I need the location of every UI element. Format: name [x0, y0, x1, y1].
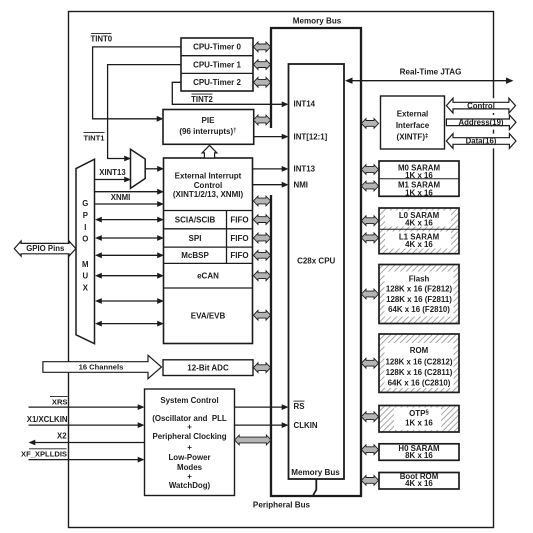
- svg-text:SCIA/SCIB: SCIA/SCIB: [175, 215, 216, 224]
- svg-text:eCAN: eCAN: [197, 272, 219, 281]
- svg-text:McBSP: McBSP: [181, 251, 209, 260]
- svg-text:TINT2: TINT2: [191, 95, 213, 104]
- svg-text:FIFO: FIFO: [230, 234, 248, 243]
- svg-text:INT13: INT13: [294, 165, 316, 174]
- svg-text:EVA/EVB: EVA/EVB: [191, 311, 226, 320]
- svg-text:Peripheral Clocking: Peripheral Clocking: [152, 432, 226, 441]
- svg-text:O: O: [82, 235, 88, 244]
- svg-text:FIFO: FIFO: [230, 215, 248, 224]
- svg-text:16 Channels: 16 Channels: [79, 363, 124, 372]
- svg-text:64K x 16 (C2810): 64K x 16 (C2810): [388, 379, 451, 388]
- svg-text:Memory Bus: Memory Bus: [293, 17, 342, 26]
- svg-text:128K x 16 (F2812): 128K x 16 (F2812): [386, 285, 453, 294]
- svg-text:ROM: ROM: [410, 346, 429, 355]
- svg-text:4K x 16: 4K x 16: [405, 219, 433, 228]
- svg-text:Flash: Flash: [409, 274, 430, 283]
- svg-text:M: M: [82, 260, 89, 269]
- svg-text:1K x 16: 1K x 16: [405, 188, 433, 197]
- svg-text:128K x 16 (C2812): 128K x 16 (C2812): [385, 357, 452, 366]
- svg-text:INT[12:1]: INT[12:1]: [294, 133, 328, 142]
- svg-text:Interface: Interface: [396, 121, 430, 130]
- svg-text:CLKIN: CLKIN: [294, 421, 318, 430]
- svg-text:(XINTF)‡: (XINTF)‡: [397, 132, 429, 141]
- svg-text:64K x 16 (F2810): 64K x 16 (F2810): [388, 305, 450, 314]
- svg-text:Control: Control: [467, 101, 495, 110]
- svg-text:Data(16): Data(16): [466, 137, 497, 146]
- svg-text:XF_XPLLDIS: XF_XPLLDIS: [21, 450, 67, 459]
- svg-text:X2: X2: [57, 432, 67, 441]
- svg-text:(96 interrupts)†: (96 interrupts)†: [179, 127, 237, 136]
- svg-text:1K x 16: 1K x 16: [405, 171, 433, 180]
- svg-text:Control: Control: [194, 181, 222, 190]
- svg-text:FIFO: FIFO: [230, 251, 248, 260]
- svg-text:External: External: [397, 109, 429, 118]
- svg-text:PIE: PIE: [202, 116, 216, 125]
- svg-text:GPIO Pins: GPIO Pins: [26, 244, 65, 253]
- svg-text:XNMI: XNMI: [111, 193, 131, 202]
- svg-text:Real-Time JTAG: Real-Time JTAG: [400, 68, 462, 77]
- svg-text:+: +: [187, 472, 192, 481]
- svg-text:CPU-Timer 1: CPU-Timer 1: [193, 60, 241, 69]
- svg-text:XINT13: XINT13: [99, 168, 126, 177]
- svg-text:NMI: NMI: [294, 181, 308, 190]
- svg-text:I: I: [84, 223, 86, 232]
- svg-text:C28x CPU: C28x CPU: [297, 257, 335, 266]
- svg-text:External Interrupt: External Interrupt: [175, 171, 242, 180]
- svg-text:8K x 16: 8K x 16: [405, 451, 433, 460]
- svg-text:P: P: [83, 211, 88, 220]
- svg-text:X1/XCLKIN: X1/XCLKIN: [27, 415, 68, 424]
- svg-text:Memory Bus: Memory Bus: [291, 468, 340, 477]
- svg-text:Low-Power: Low-Power: [168, 453, 210, 462]
- svg-text:4K x 16: 4K x 16: [405, 479, 433, 488]
- svg-text:Peripheral Bus: Peripheral Bus: [253, 501, 311, 510]
- svg-text:Modes: Modes: [177, 463, 203, 472]
- svg-text:1K x 16: 1K x 16: [405, 418, 433, 427]
- svg-text:SPI: SPI: [189, 234, 202, 243]
- svg-text:XRS: XRS: [52, 397, 68, 406]
- svg-text:System Control: System Control: [160, 396, 218, 405]
- svg-text:CPU-Timer 0: CPU-Timer 0: [193, 43, 241, 52]
- svg-text:128K x 16 (C2811): 128K x 16 (C2811): [386, 368, 453, 377]
- svg-text:WatchDog): WatchDog): [169, 481, 211, 490]
- svg-text:4K x 16: 4K x 16: [405, 240, 433, 249]
- svg-text:U: U: [82, 272, 88, 281]
- svg-text:TINT0: TINT0: [90, 35, 112, 44]
- svg-text:INT14: INT14: [294, 99, 316, 108]
- svg-text:+: +: [187, 422, 192, 431]
- svg-text:12-Bit ADC: 12-Bit ADC: [187, 364, 229, 373]
- svg-text:+: +: [187, 443, 192, 452]
- svg-text:G: G: [82, 199, 88, 208]
- svg-text:CPU-Timer 2: CPU-Timer 2: [193, 78, 241, 87]
- svg-text:128K x 16 (F2811): 128K x 16 (F2811): [386, 295, 452, 304]
- svg-text:Address(19): Address(19): [458, 118, 503, 127]
- svg-text:TINT1: TINT1: [83, 134, 105, 143]
- svg-text:(XINT1/2/13, XNMI): (XINT1/2/13, XNMI): [173, 190, 244, 199]
- svg-text:X: X: [83, 283, 89, 292]
- svg-text:RS: RS: [294, 402, 305, 411]
